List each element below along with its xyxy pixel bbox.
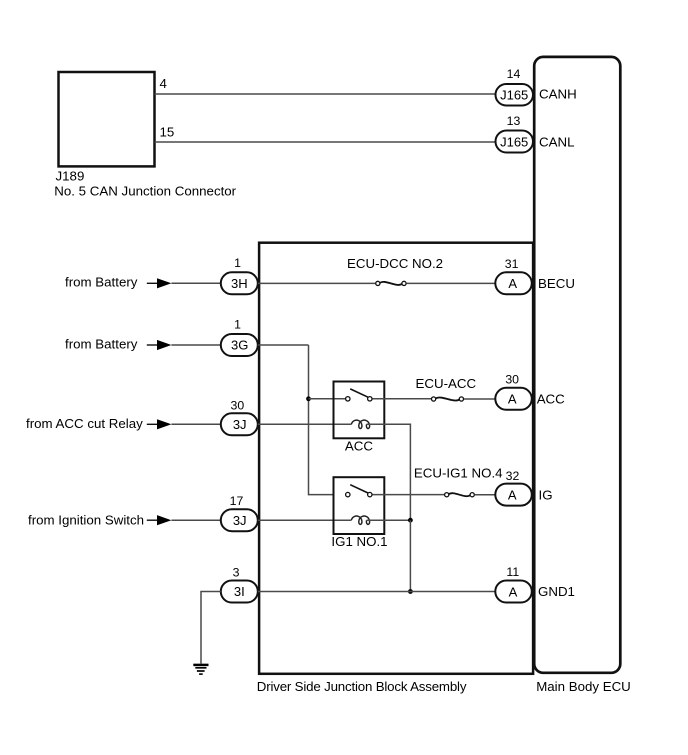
fuse ECU-ACC label [416,376,477,391]
label J189 / No. 5 CAN Junction Connector [54,169,236,199]
pin 30 label (3J) [231,398,245,412]
svg-text:ECU-IG1 NO.4: ECU-IG1 NO.4 [414,466,503,481]
fuse ECU-IG1 NO.4 [445,493,475,497]
label IG1 NO.1 [331,534,387,549]
junction dot (ACC switch feed) [306,396,311,401]
wire CANH (J189 pin 4 to J165) [155,93,496,95]
pin 15 label [160,125,175,140]
svg-text:ACC: ACC [345,439,373,454]
svg-text:BECU: BECU [538,276,575,291]
node BECU [538,276,575,291]
node GND1 [538,584,575,599]
pin 13 label [507,114,521,128]
pin 1 label (3H) [234,256,241,270]
label from Battery (BECU row) [65,275,138,290]
pin 32 label [506,469,520,483]
svg-text:from Ignition Switch: from Ignition Switch [28,512,144,527]
ECU box Main Body ECU [534,57,620,673]
svg-text:ACC: ACC [537,392,565,407]
fuse ECU-ACC [432,397,464,401]
wire 3G to branch [258,344,309,346]
svg-text:3G: 3G [231,338,248,353]
wire IG1 coil to branch2 [367,519,411,521]
arrow (from Battery to 3G) [147,340,172,350]
svg-text:Main Body ECU: Main Body ECU [536,679,631,694]
arrow (from Ignition Switch) [147,515,172,525]
connector 3G [221,334,258,356]
svg-text:31: 31 [505,257,519,271]
arrow (from Battery to 3H) [147,278,172,288]
svg-text:1: 1 [234,256,241,270]
connector J189 box [59,72,155,166]
connector A (pin 30) [495,388,532,410]
svg-text:GND1: GND1 [538,584,575,599]
wire 3H to fuse [258,282,375,284]
connector J165 (pin 13) [496,131,534,153]
svg-text:J165: J165 [500,88,528,103]
wire ACC coil to branch2 [367,424,411,520]
wire ACC switch to fuse [373,398,432,400]
node ACC [537,392,565,407]
svg-text:A: A [508,276,517,291]
label Main Body ECU [536,679,631,694]
pin 30 label (A) [505,373,519,387]
svg-text:A: A [508,487,517,502]
pin 1 label (3G) [234,318,241,332]
relay ACC switch [346,389,372,401]
fuse ECU-IG1 NO.4 label [414,466,503,481]
label from Battery (3G row) [65,336,138,351]
svg-text:from Battery: from Battery [65,275,138,290]
svg-text:IG1 NO.1: IG1 NO.1 [331,534,387,549]
node IG [539,487,553,502]
svg-text:IG: IG [539,487,553,502]
connector A (pin 11) [495,581,532,603]
label from ACC cut Relay [26,416,143,431]
pin 11 label [506,565,519,579]
wire branch2 down to GND row [409,520,411,591]
svg-text:3H: 3H [231,276,248,291]
wire arrow to 3G [171,344,220,346]
fuse ECU-DCC NO.2 [376,281,406,285]
svg-text:CANL: CANL [539,135,574,150]
ground [193,665,208,674]
wire branch vertical (3G feed) [309,345,334,495]
relay ACC box [334,382,385,439]
svg-text:30: 30 [231,398,245,412]
pin 14 label [507,67,521,81]
svg-text:11: 11 [506,565,519,579]
wire 3I to A11 [258,591,495,593]
svg-text:3I: 3I [234,584,245,599]
connector J165 (pin 14) [496,84,534,106]
svg-text:ECU-ACC: ECU-ACC [416,376,477,391]
relay IG1 switch [346,485,372,497]
junction dot (GND join) [408,589,413,594]
svg-text:1: 1 [234,318,241,332]
wire 3I to ground [201,592,221,664]
svg-text:15: 15 [160,125,175,140]
svg-text:No. 5 CAN Junction Connector: No. 5 CAN Junction Connector [54,184,236,199]
label ACC (relay) [345,439,373,454]
svg-text:30: 30 [505,373,519,387]
wire fuse to A31 [407,282,495,284]
svg-text:ECU-DCC NO.2: ECU-DCC NO.2 [347,256,443,271]
svg-text:J165: J165 [500,134,528,149]
wire branch to ACC switch [309,398,346,400]
svg-text:from ACC cut Relay: from ACC cut Relay [26,416,143,431]
svg-text:32: 32 [506,469,520,483]
wire 3J to IG1 coil [258,519,352,521]
connector 3J (pin 17) [221,509,258,531]
wire CANL (J189 pin 15 to J165) [155,141,496,143]
svg-text:Driver Side Junction Block Ass: Driver Side Junction Block Assembly [257,679,467,694]
svg-text:CANH: CANH [539,87,577,102]
relay ACC coil [351,420,369,428]
svg-text:A: A [508,392,517,407]
arrow (from ACC cut Relay) [147,419,172,429]
label Driver Side Junction Block Assembly [257,679,467,694]
svg-text:J189: J189 [56,169,85,184]
svg-text:3J: 3J [233,513,247,528]
wire arrow to 3H [171,282,220,284]
wire 3J to ACC coil [258,423,352,425]
svg-text:4: 4 [160,76,167,91]
svg-text:17: 17 [230,494,244,508]
wire fuse to A30 [464,398,495,400]
wire IG1 switch to fuse [373,494,445,496]
wire arrow to 3J (17) [171,519,220,521]
pin 4 label [160,76,167,91]
junction block Driver Side Junction Block Assembly [259,243,533,674]
svg-text:13: 13 [507,114,521,128]
node CANH [539,87,577,102]
svg-text:3J: 3J [233,417,247,432]
junction dot (coil join) [408,518,413,523]
svg-text:14: 14 [507,67,521,81]
connector 3J (pin 30) [221,413,258,435]
relay IG1 NO.1 box [334,477,385,534]
pin 31 label [505,257,519,271]
node CANL [539,135,574,150]
pin 3 label [233,566,240,580]
svg-text:3: 3 [233,566,240,580]
svg-text:A: A [509,584,518,599]
pin 17 label [230,494,244,508]
wire fuse to A32 [475,494,495,496]
fuse ECU-DCC NO.2 label [347,256,443,271]
connector 3H [221,272,258,294]
label from Ignition Switch [28,512,144,527]
wire arrow to 3J [171,423,220,425]
relay IG1 coil [351,516,369,524]
connector 3I [221,581,258,603]
svg-text:from Battery: from Battery [65,336,138,351]
connector A (pin 31) [495,272,532,294]
connector A (pin 32) [495,484,532,506]
